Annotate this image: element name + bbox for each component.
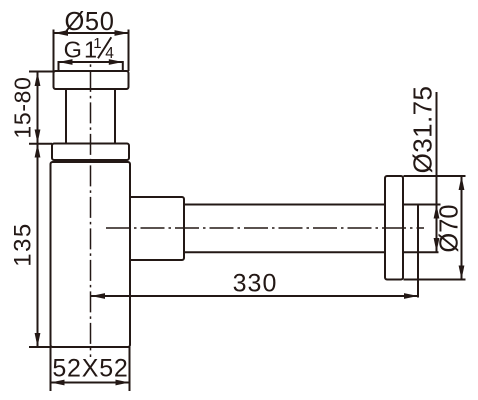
svg-text:Ø31.75: Ø31.75 bbox=[408, 86, 438, 174]
svg-text:1: 1 bbox=[93, 35, 101, 52]
svg-text:330: 330 bbox=[233, 270, 278, 298]
svg-text:15-80: 15-80 bbox=[10, 76, 36, 138]
svg-text:Ø70: Ø70 bbox=[436, 204, 464, 252]
svg-text:135: 135 bbox=[10, 222, 37, 267]
svg-text:Ø50: Ø50 bbox=[65, 8, 115, 36]
svg-text:52X52: 52X52 bbox=[52, 355, 128, 383]
svg-text:4: 4 bbox=[105, 45, 114, 62]
svg-text:G: G bbox=[64, 37, 82, 63]
